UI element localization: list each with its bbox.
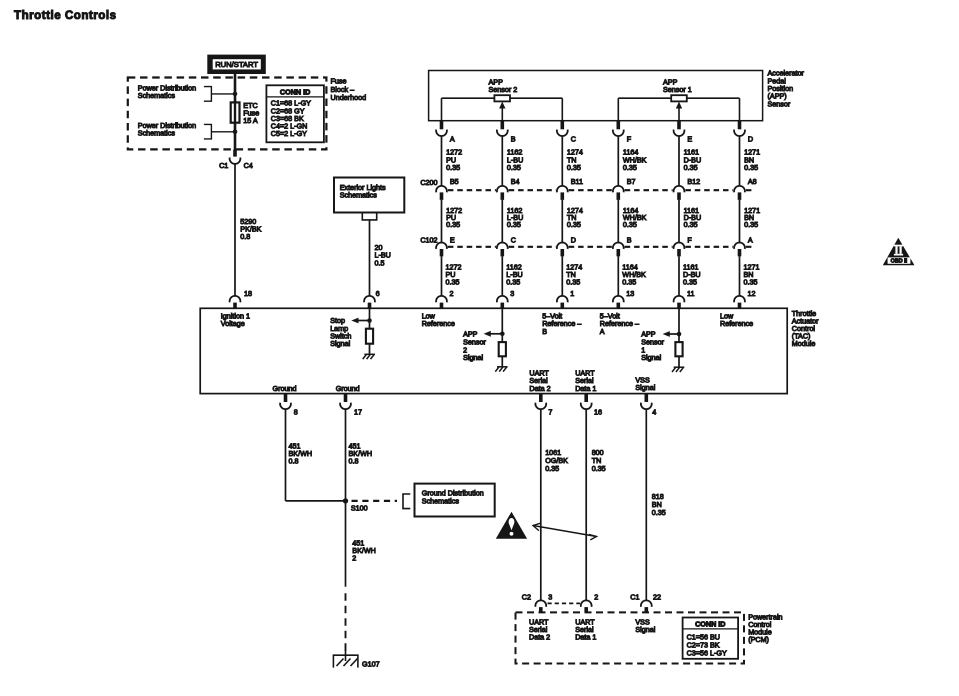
svg-text:Throttle Controls: Throttle Controls (14, 9, 117, 22)
junction dot 1 (233, 92, 238, 97)
svg-text:11: 11 (687, 289, 694, 298)
pin 18 (230, 289, 252, 309)
svg-text:Data 1: Data 1 (575, 633, 596, 642)
svg-text:6: 6 (376, 289, 380, 298)
svg-text:0.35: 0.35 (622, 278, 636, 287)
svg-text:Module: Module (792, 339, 816, 348)
connector C200 pin B5 (436, 177, 459, 200)
svg-text:OBD II: OBD II (891, 259, 908, 265)
TAC module box (200, 308, 787, 393)
svg-text:0.35: 0.35 (446, 220, 460, 229)
svg-text:2: 2 (594, 593, 598, 602)
svg-text:0.35: 0.35 (507, 220, 521, 229)
svg-text:8: 8 (294, 408, 298, 417)
splice S100 (343, 498, 368, 512)
wire segment 2 col 3 (1274 TN) (562, 200, 583, 243)
svg-text:15 A: 15 A (243, 116, 258, 125)
svg-text:Data 2: Data 2 (529, 384, 550, 393)
connector C102 dashed body (420, 235, 753, 246)
label wire 451 BK/WH 0.8 b (349, 441, 373, 465)
label UART Serial Data 2 PCM (529, 617, 550, 641)
svg-text:0.35: 0.35 (567, 220, 581, 229)
wire 20 L-BU to pin 6 (369, 220, 371, 296)
svg-text:0.35: 0.35 (744, 163, 758, 172)
label UART Serial Data 2 TAC (529, 368, 550, 393)
label ETC Fuse 15 A (243, 101, 259, 125)
TAC pin 11 (674, 289, 695, 309)
label VSS Signal TAC (635, 375, 655, 392)
label Ignition 1 Voltage (221, 311, 250, 328)
TAC bottom pin 17 (340, 394, 362, 417)
label 5-Volt Reference B (542, 311, 581, 336)
connector pin A of APP sensor (436, 121, 455, 144)
svg-text:16: 16 (594, 408, 602, 417)
power feed RUN/START box (208, 55, 265, 73)
junction dot 2 (233, 130, 238, 135)
svg-text:0.35: 0.35 (566, 278, 580, 287)
wire 451 from pin 8 (286, 409, 346, 501)
wire to stop lamp resistor (369, 309, 371, 329)
bracket to wire 2 (204, 124, 235, 138)
resistor stop lamp (366, 329, 373, 344)
APP sensor 1 wiper arrow (676, 102, 682, 121)
caution triangle note (496, 512, 527, 539)
wire segment 1 col 3 (1274 TN) (562, 136, 583, 186)
svg-text:2: 2 (450, 289, 454, 298)
svg-text:Reference: Reference (720, 319, 753, 328)
wire segment 2 col 1 (1272 PU) (442, 200, 463, 243)
svg-text:0.35: 0.35 (446, 163, 460, 172)
svg-text:G107: G107 (362, 659, 380, 668)
label Fuse Block - Underhood (331, 77, 367, 102)
label wire 1061 OG/BK 0.35 (545, 448, 568, 473)
bracket under exterior box (362, 213, 376, 220)
OBD II symbol (883, 238, 915, 265)
svg-text:0.35: 0.35 (652, 508, 666, 517)
svg-text:A: A (748, 235, 753, 244)
svg-text:C200: C200 (420, 178, 437, 187)
svg-text:0.35: 0.35 (567, 163, 581, 172)
wire segment 3 col 1 (1272 PU) (442, 256, 462, 296)
svg-text:A: A (450, 134, 455, 143)
svg-text:A8: A8 (748, 177, 757, 186)
APP sensor 2 signal arrow (484, 331, 505, 337)
svg-text:RUN/START: RUN/START (215, 60, 258, 69)
wire segment 2 col 2 (1162 L-BU) (502, 200, 523, 243)
svg-text:13: 13 (626, 289, 634, 298)
label 5-Volt Reference A (600, 311, 639, 336)
label APP Sensor 1 Signal (641, 330, 664, 363)
connector C200 pin B4 (497, 177, 520, 200)
svg-text:CONN ID: CONN ID (280, 88, 310, 97)
connector C1/C4 (219, 150, 253, 171)
conn id table PCM (683, 618, 739, 659)
wire segment 3 col 4 (1164 WH/BK) (618, 256, 646, 296)
svg-text:Signal: Signal (635, 383, 655, 392)
label Powertrain Control Module (PCM) (748, 612, 782, 644)
TAC pin 13 (613, 289, 634, 309)
svg-text:3: 3 (510, 289, 514, 298)
APP sensor 1 element (618, 95, 739, 121)
PCM pin C2-3 connector (522, 593, 553, 613)
PCM dashed box (516, 612, 745, 663)
label wire 800 TN 0.35 (592, 448, 606, 473)
wire segment 1 col 4 (1164 WH/BK) (618, 136, 646, 186)
label wire 5290 PK/BK 0.8 (240, 217, 261, 241)
APP sensor 2 element (442, 95, 563, 121)
svg-text:0.35: 0.35 (623, 163, 637, 172)
svg-text:B: B (511, 134, 516, 143)
label UART Serial Data 1 TAC (575, 368, 596, 393)
svg-text:B4: B4 (511, 177, 520, 186)
conn id table fuse block (266, 85, 324, 142)
box Exterior Lights Schematics (334, 178, 404, 213)
svg-text:Reference: Reference (422, 319, 455, 328)
ground G107 (333, 650, 380, 668)
TAC pin 12 (734, 289, 755, 309)
ground APP1 (672, 367, 684, 372)
svg-text:0.35: 0.35 (592, 464, 606, 473)
svg-text:(PCM): (PCM) (748, 635, 769, 644)
TAC bottom pin 4 (641, 394, 656, 417)
caution reference arrow (533, 523, 597, 540)
label APP Sensor 1 (663, 77, 692, 94)
label wire 451 BK/WH 0.8 a (289, 441, 313, 465)
svg-text:3: 3 (548, 593, 552, 602)
fuse block dashed box (128, 78, 327, 150)
wire segment 3 col 6 (1271 BN) (740, 256, 760, 296)
label Stop Lamp Switch Signal (330, 316, 351, 348)
wire 800 pin 16 to PCM pin 2 (585, 409, 587, 601)
wire segment 3 col 2 (1162 L-BU) (502, 256, 522, 296)
TAC pin 2 (436, 289, 453, 309)
svg-text:A: A (600, 327, 605, 336)
ground stop lamp (363, 354, 375, 359)
svg-text:0.5: 0.5 (375, 258, 385, 267)
wire segment 1 col 5 (1161 D-BU) (679, 136, 701, 186)
svg-text:Schematics: Schematics (138, 91, 176, 100)
svg-text:4: 4 (652, 408, 656, 417)
wire segment 1 col 6 (1271 BN) (740, 136, 761, 186)
connector C200 pin B12 (674, 177, 701, 200)
PCM pin C1-22 connector (630, 593, 661, 613)
svg-text:Schematics: Schematics (422, 496, 460, 505)
bracket ground distribution (403, 494, 410, 509)
svg-text:0.35: 0.35 (744, 278, 758, 287)
wire RUN/START to fuse (234, 74, 237, 103)
wire to APP2 resistor (501, 309, 503, 343)
svg-text:Schematics: Schematics (340, 191, 378, 200)
svg-text:B12: B12 (687, 177, 700, 186)
svg-text:Data 2: Data 2 (529, 633, 550, 642)
wire 1061 pin 7 to PCM pin 3 (540, 409, 542, 601)
svg-text:Signal: Signal (641, 353, 661, 362)
svg-text:B: B (542, 327, 547, 336)
connector C102 pin B (613, 235, 632, 256)
label Low Reference right (720, 311, 753, 328)
wire fuse to C1/C4 (234, 123, 237, 152)
svg-text:CONN ID: CONN ID (695, 620, 725, 629)
wire segment 1 col 2 (1162 L-BU) (502, 136, 523, 186)
label Ground pin 8 (273, 384, 297, 393)
fuse F1 ETC 15A (231, 102, 240, 122)
APP sensor outer box (429, 71, 763, 121)
svg-text:E: E (450, 235, 455, 244)
svg-text:1: 1 (570, 289, 574, 298)
wire to APP1 resistor (678, 309, 680, 343)
pin 6 (364, 289, 380, 309)
svg-text:C102: C102 (420, 235, 437, 244)
wire resistor to ground (369, 344, 371, 355)
svg-text:18: 18 (244, 289, 252, 298)
resistor APP1 (675, 342, 682, 356)
connector C200 pin B7 (613, 177, 636, 200)
svg-text:D: D (571, 235, 576, 244)
label APP Sensor 2 (489, 77, 518, 94)
svg-text:0.8: 0.8 (349, 456, 359, 465)
TAC bottom pin 8 (280, 394, 298, 417)
label Low Reference left (422, 311, 455, 328)
svg-text:0.35: 0.35 (506, 278, 520, 287)
PCM pin 2 connector (581, 593, 598, 613)
svg-text:C5=2 L-GY: C5=2 L-GY (271, 129, 307, 138)
svg-text:D: D (748, 134, 753, 143)
svg-text:0.35: 0.35 (684, 220, 698, 229)
label Power Distribution Schematics 1 (138, 83, 196, 99)
wire APP2 resistor to ground (501, 356, 503, 367)
svg-text:Signal: Signal (635, 625, 655, 634)
wire segment 2 col 5 (1161 D-BU) (679, 200, 701, 243)
wire segment 2 col 6 (1271 BN) (740, 200, 761, 243)
label UART Serial Data 1 PCM (575, 617, 596, 641)
svg-text:B5: B5 (450, 177, 459, 186)
connector C102 pin E (436, 235, 455, 256)
bracket to wire 1 (204, 87, 235, 102)
wire segment 1 col 1 (1272 PU) (442, 136, 463, 186)
TAC pin 3 (497, 289, 514, 309)
svg-text:Reference –: Reference – (600, 319, 639, 328)
wire 451 from pin 17 (345, 409, 347, 587)
wire segment 3 col 3 (1274 TN) (562, 256, 582, 296)
APP sensor 1 signal arrow (663, 331, 682, 337)
label wire 818 BN 0.35 (652, 492, 666, 517)
connector C200 pin A8 (734, 177, 757, 200)
svg-text:Sensor: Sensor (768, 99, 791, 108)
svg-text:Underhood: Underhood (331, 93, 367, 102)
svg-text:F: F (687, 235, 692, 244)
TAC bottom pin 16 (581, 394, 602, 417)
connector C102 pin A (734, 235, 753, 256)
svg-text:7: 7 (548, 408, 552, 417)
svg-text:Voltage: Voltage (221, 319, 245, 328)
wire segment 2 col 4 (1164 WH/BK) (618, 200, 646, 243)
svg-text:0.35: 0.35 (545, 464, 559, 473)
svg-text:17: 17 (354, 408, 362, 417)
svg-text:0.35: 0.35 (507, 163, 521, 172)
svg-text:0.35: 0.35 (684, 163, 698, 172)
svg-text:C4: C4 (244, 161, 253, 170)
svg-text:12: 12 (748, 289, 756, 298)
svg-text:Reference –: Reference – (542, 319, 581, 328)
svg-text:Ground: Ground (273, 384, 297, 393)
svg-text:S100: S100 (351, 504, 368, 513)
svg-text:0.35: 0.35 (744, 220, 758, 229)
label VSS Signal PCM (635, 617, 655, 634)
svg-text:B7: B7 (627, 177, 636, 186)
svg-text:Signal: Signal (463, 353, 483, 362)
svg-text:C: C (511, 235, 516, 244)
svg-text:Sensor 1: Sensor 1 (663, 85, 692, 94)
dashed wire S100 to ground distribution (352, 500, 398, 502)
APP sensor 2 wiper arrow (499, 102, 505, 121)
connector pin C of APP sensor (557, 121, 576, 144)
dashed wire to G107 (345, 593, 347, 653)
label Power Distribution Schematics 2 (138, 121, 196, 137)
svg-text:C3=56 L-GY: C3=56 L-GY (687, 649, 727, 658)
svg-text:C: C (571, 134, 576, 143)
box Ground Distribution Schematics (415, 484, 495, 517)
svg-text:B11: B11 (571, 177, 583, 186)
wire 5290 to pin 18 (234, 164, 236, 296)
svg-text:B: B (627, 235, 632, 244)
svg-text:0.35: 0.35 (446, 278, 460, 287)
svg-text:Ground: Ground (336, 384, 360, 393)
svg-text:2: 2 (352, 554, 356, 563)
label APP Sensor 2 Signal (463, 330, 486, 363)
svg-text:0.35: 0.35 (623, 220, 637, 229)
TAC pin 1 (557, 289, 574, 309)
wire segment 3 col 5 (1161 D-BU) (679, 256, 701, 296)
stop lamp signal arrow (351, 318, 372, 324)
label Accelerator Pedal Position (APP) Sensor (768, 69, 805, 109)
connector pin E of APP sensor (674, 121, 693, 144)
label Ground pin 17 (336, 384, 360, 393)
TAC bottom pin 7 (535, 394, 552, 417)
connector C102 pin C (497, 235, 516, 256)
connector C102 pin D (557, 235, 576, 256)
label wire 451 BK/WH 2 (352, 539, 376, 563)
label wire 20 L-BU 0.5 (375, 243, 391, 267)
connector pin F of APP sensor (613, 121, 632, 144)
wire 818 pin 4 to PCM pin 22 (645, 409, 647, 601)
svg-text:0.35: 0.35 (683, 278, 697, 287)
svg-text:Sensor 2: Sensor 2 (489, 85, 518, 94)
svg-text:C1: C1 (630, 593, 639, 602)
connector C200 pin B11 (557, 177, 583, 200)
svg-text:C1: C1 (219, 161, 228, 170)
svg-text:F: F (627, 134, 632, 143)
title Throttle Controls (14, 9, 117, 22)
svg-text:Signal: Signal (330, 339, 350, 348)
connector C200 dashed body (420, 178, 753, 190)
svg-text:C2: C2 (522, 593, 531, 602)
svg-text:Data 1: Data 1 (575, 384, 596, 393)
ground APP2 (495, 367, 507, 372)
svg-text:0.8: 0.8 (240, 232, 250, 241)
connector pin D of APP sensor (734, 121, 753, 144)
resistor APP2 (499, 342, 506, 356)
connector pin B of APP sensor (497, 121, 516, 144)
label Throttle Actuator Control (TAC) Module (792, 309, 819, 348)
wire APP1 resistor to ground (678, 356, 680, 367)
svg-text:0.8: 0.8 (289, 456, 299, 465)
svg-text:Schematics: Schematics (138, 129, 176, 138)
connector C102 pin F (674, 235, 693, 256)
svg-text:E: E (687, 134, 692, 143)
PCM connector dashed link (548, 602, 581, 604)
svg-text:22: 22 (653, 593, 661, 602)
